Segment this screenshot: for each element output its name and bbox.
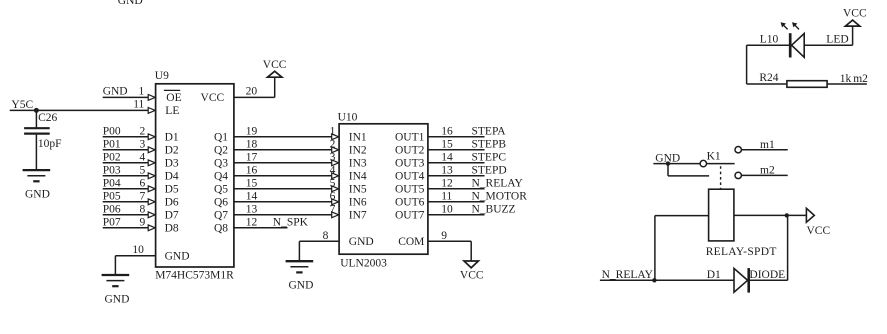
svg-text:D5: D5: [165, 184, 179, 196]
relay K1 coil: [709, 189, 734, 241]
svg-text:13: 13: [441, 164, 453, 176]
wire OUT6 (pin 11) N_MOTOR stub: [428, 201, 485, 203]
svg-text:IN1: IN1: [349, 132, 367, 144]
svg-text:N_MOTOR: N_MOTOR: [472, 190, 528, 202]
svg-text:LE: LE: [165, 105, 179, 117]
wire LED cathode to left rail: [747, 44, 789, 46]
wire Y5C to U9 pin 11 (LE): [10, 109, 149, 111]
svg-text:STEPB: STEPB: [472, 138, 507, 150]
svg-text:20: 20: [246, 86, 258, 98]
svg-text:VCC: VCC: [201, 92, 225, 104]
wire U9 pin 10 to ground: [115, 255, 155, 257]
svg-text:L10: L10: [760, 33, 779, 45]
svg-text:VCC: VCC: [263, 59, 287, 71]
svg-text:Q1: Q1: [214, 132, 228, 144]
svg-text:GND: GND: [349, 236, 374, 248]
wire Q8 (pin 12) N_SPK stub: [234, 227, 288, 229]
svg-text:VCC: VCC: [843, 7, 867, 19]
svg-text:GND: GND: [105, 293, 130, 305]
wire U10 pin 9 COM to VCC: [428, 240, 471, 242]
svg-text:OUT6: OUT6: [395, 197, 425, 209]
svg-text:3: 3: [140, 138, 146, 150]
svg-text:OUT3: OUT3: [395, 158, 425, 170]
wire N_RELAY to diode anode: [600, 279, 734, 281]
pin 9 arrow: [148, 225, 155, 231]
U10 pin 7 arrow: [332, 212, 339, 218]
wire junction to C26 top plate: [35, 110, 37, 128]
svg-text:D3: D3: [165, 158, 179, 170]
wire P04 to U9 pin 6: [103, 188, 149, 190]
U10 pin 4 arrow: [332, 173, 339, 179]
U10 pin 2 arrow: [332, 147, 339, 153]
svg-text:4: 4: [140, 151, 146, 163]
svg-text:1k: 1k: [840, 73, 852, 85]
svg-text:19: 19: [246, 125, 258, 137]
svg-text:N_RELAY: N_RELAY: [602, 269, 654, 281]
wire U10 pin 8 to ground: [299, 240, 339, 242]
svg-text:14: 14: [246, 190, 258, 202]
pin 8 arrow: [148, 212, 155, 218]
svg-text:Q7: Q7: [214, 210, 228, 222]
svg-text:N_RELAY: N_RELAY: [472, 177, 524, 189]
wire P00 to U9 pin 2: [103, 136, 149, 138]
svg-text:Q3: Q3: [214, 158, 228, 170]
svg-text:GND: GND: [165, 251, 190, 263]
svg-text:12: 12: [441, 177, 453, 189]
svg-text:VCC: VCC: [460, 270, 484, 282]
relay K1 pole contact: [700, 160, 706, 166]
wire OUT4 (pin 13) STEPD stub: [428, 175, 485, 177]
wire P02 to U9 pin 4: [103, 162, 149, 164]
wire GND net to U9 pin 1: [103, 96, 149, 98]
svg-text:16: 16: [246, 164, 258, 176]
svg-text:Q2: Q2: [214, 145, 228, 157]
wire left rail (LED to R24): [746, 45, 748, 84]
svg-text:D6: D6: [165, 197, 179, 209]
svg-text:N_SPK: N_SPK: [273, 216, 309, 228]
capacitor C26: [24, 127, 50, 129]
svg-text:LED: LED: [826, 33, 848, 45]
svg-text:Q6: Q6: [214, 197, 228, 209]
svg-text:IN2: IN2: [349, 145, 367, 157]
pin 5 arrow: [148, 173, 155, 179]
relay throw contact m1: [735, 147, 741, 153]
U10 pin 5 arrow: [332, 186, 339, 192]
svg-text:IN6: IN6: [349, 197, 367, 209]
svg-text:P00: P00: [103, 125, 121, 137]
relay K1 actuator dashed link: [720, 166, 722, 188]
junction node Y5C/C26: [34, 108, 39, 113]
svg-text:D4: D4: [165, 171, 179, 183]
wire Q5 (pin 15) to U10 IN5 (pin 5): [234, 188, 333, 190]
svg-text:Q5: Q5: [214, 184, 228, 196]
junction node (N_RELAY/rail): [652, 278, 656, 282]
relay throw contact m2: [735, 172, 741, 178]
svg-text:Q8: Q8: [214, 223, 228, 235]
svg-text:IN7: IN7: [349, 210, 367, 222]
VCC symbol (relay, pointing right): [806, 208, 814, 222]
wire coil right to VCC: [734, 214, 806, 216]
svg-text:P01: P01: [103, 138, 121, 150]
wire OUT2 (pin 15) STEPB stub: [428, 149, 485, 151]
resistor R24: [787, 81, 827, 88]
svg-text:STEPC: STEPC: [472, 151, 507, 163]
svg-text:P06: P06: [103, 203, 121, 215]
svg-text:GND: GND: [118, 0, 143, 7]
svg-text:m2: m2: [760, 165, 775, 177]
svg-text:9: 9: [441, 230, 447, 242]
svg-text:IN3: IN3: [349, 158, 367, 170]
svg-text:Q4: Q4: [214, 171, 228, 183]
VCC symbol (U9 pin 20): [268, 71, 282, 77]
wire coil left to rail: [655, 215, 709, 217]
svg-text:D1: D1: [165, 132, 179, 144]
ground (U10 pin 8): [286, 260, 314, 262]
svg-text:10: 10: [132, 244, 144, 256]
svg-text:8: 8: [323, 230, 329, 242]
svg-text:K1: K1: [707, 151, 721, 163]
pin 6 arrow: [148, 186, 155, 192]
diode D1: [734, 268, 748, 292]
VCC symbol (LED circuit): [845, 20, 859, 26]
U10 pin 3 arrow: [332, 160, 339, 166]
junction node (coil/diode/VCC): [785, 213, 789, 217]
svg-text:OUT2: OUT2: [395, 145, 425, 157]
svg-text:Y5C: Y5C: [11, 99, 33, 111]
pin 2 arrow: [148, 134, 155, 140]
svg-text:5: 5: [140, 164, 146, 176]
svg-text:P04: P04: [103, 177, 121, 189]
svg-text:VCC: VCC: [807, 225, 831, 237]
svg-text:2: 2: [140, 125, 146, 137]
wire Q3 (pin 17) to U10 IN3 (pin 3): [234, 162, 333, 164]
svg-text:D1: D1: [707, 269, 721, 281]
wire R24 right stub: [827, 83, 867, 85]
svg-text:M74HC573M1R: M74HC573M1R: [155, 270, 234, 282]
wire Q6 (pin 14) to U10 IN6 (pin 6): [234, 201, 333, 203]
wire P06 to U9 pin 8: [103, 214, 149, 216]
wire Q4 (pin 16) to U10 IN4 (pin 4): [234, 175, 333, 177]
svg-text:17: 17: [246, 151, 258, 163]
wire m1 stub: [741, 149, 787, 151]
svg-text:11: 11: [133, 99, 144, 111]
wire P01 to U9 pin 3: [103, 149, 149, 151]
ground (U9 pin 10): [102, 274, 130, 276]
svg-text:U9: U9: [155, 70, 169, 82]
wire OUT3 (pin 14) STEPC stub: [428, 162, 485, 164]
pin 4 arrow: [148, 160, 155, 166]
svg-text:RELAY-SPDT: RELAY-SPDT: [706, 246, 777, 258]
wire C26 bottom plate to ground: [35, 135, 37, 171]
svg-text:GND: GND: [289, 280, 314, 292]
wire P07 to U9 pin 9: [103, 227, 149, 229]
relay K1 pole arm: [707, 163, 735, 165]
wire OUT5 (pin 12) N_RELAY stub: [428, 188, 485, 190]
svg-text:STEPD: STEPD: [472, 164, 507, 176]
svg-text:D2: D2: [165, 145, 179, 157]
svg-text:GND: GND: [25, 189, 50, 201]
wire P05 to U9 pin 7: [103, 201, 149, 203]
svg-text:IN5: IN5: [349, 184, 367, 196]
ground (C26): [23, 169, 51, 171]
svg-text:18: 18: [246, 138, 258, 150]
svg-text:ULN2003: ULN2003: [340, 257, 387, 269]
svg-text:14: 14: [441, 151, 453, 163]
svg-text:15: 15: [441, 138, 453, 150]
svg-text:U10: U10: [338, 112, 358, 124]
wire OUT7 (pin 10) N_BUZZ stub: [428, 214, 485, 216]
svg-text:9: 9: [140, 216, 146, 228]
svg-text:N_BUZZ: N_BUZZ: [472, 203, 516, 215]
svg-text:P03: P03: [103, 164, 121, 176]
wire junction to NC contact: [667, 164, 669, 176]
VCC symbol (COM, pointing down): [464, 261, 478, 268]
pin 1 arrow: [148, 95, 155, 101]
svg-text:OUT1: OUT1: [395, 132, 425, 144]
svg-text:12: 12: [246, 216, 258, 228]
wire OUT1 (pin 16) STEPA stub: [428, 136, 485, 138]
svg-text:C26: C26: [38, 112, 57, 124]
svg-text:COM: COM: [398, 236, 424, 248]
svg-text:11: 11: [441, 190, 452, 202]
svg-text:D8: D8: [165, 223, 179, 235]
svg-text:1: 1: [139, 85, 145, 97]
wire m2 stub: [741, 174, 787, 176]
pin 3 arrow: [148, 147, 155, 153]
IC U9 M74HC573M1R body: [156, 84, 234, 267]
svg-text:6: 6: [140, 177, 146, 189]
wire U9 pin 20 to VCC: [234, 96, 275, 98]
svg-text:STEPA: STEPA: [472, 125, 507, 137]
pin 7 arrow: [148, 199, 155, 205]
svg-text:m2: m2: [853, 73, 868, 85]
svg-text:R24: R24: [759, 72, 778, 84]
svg-text:16: 16: [441, 125, 453, 137]
junction node (relay GND): [666, 161, 670, 165]
svg-text:13: 13: [246, 203, 258, 215]
U10 pin 6 arrow: [332, 199, 339, 205]
svg-text:GND: GND: [103, 85, 128, 97]
wire P03 to U9 pin 5: [103, 175, 149, 177]
svg-text:10: 10: [441, 203, 453, 215]
svg-text:m1: m1: [760, 139, 775, 151]
pin 11 arrow: [148, 108, 155, 114]
wire rail to R24: [747, 83, 787, 85]
wire VCC to LED anode: [852, 26, 854, 45]
svg-text:P07: P07: [103, 216, 121, 228]
svg-text:P02: P02: [103, 151, 121, 163]
svg-text:D7: D7: [165, 210, 179, 222]
svg-text:OUT7: OUT7: [395, 210, 425, 222]
svg-text:OE: OE: [166, 92, 181, 104]
U10 pin 1 arrow: [332, 134, 339, 140]
svg-text:IN4: IN4: [349, 171, 367, 183]
svg-text:15: 15: [246, 177, 258, 189]
wire Q1 (pin 19) to U10 IN1 (pin 1): [234, 136, 333, 138]
wire GND to K1 pole: [653, 163, 700, 165]
LED L10: [792, 34, 805, 58]
svg-text:8: 8: [140, 203, 146, 215]
wire Q7 (pin 13) to U10 IN7 (pin 7): [234, 214, 333, 216]
svg-text:DIODE: DIODE: [749, 269, 785, 281]
wire Q2 (pin 18) to U10 IN2 (pin 2): [234, 149, 333, 151]
svg-text:7: 7: [140, 190, 146, 202]
LED light arrows: [783, 24, 788, 29]
IC U10 ULN2003 body: [339, 124, 428, 254]
svg-text:OUT5: OUT5: [395, 184, 425, 196]
svg-text:P05: P05: [103, 190, 121, 202]
svg-text:OUT4: OUT4: [395, 171, 425, 183]
wire diode cathode up to coil junction: [749, 279, 788, 281]
svg-text:10pF: 10pF: [38, 138, 62, 150]
